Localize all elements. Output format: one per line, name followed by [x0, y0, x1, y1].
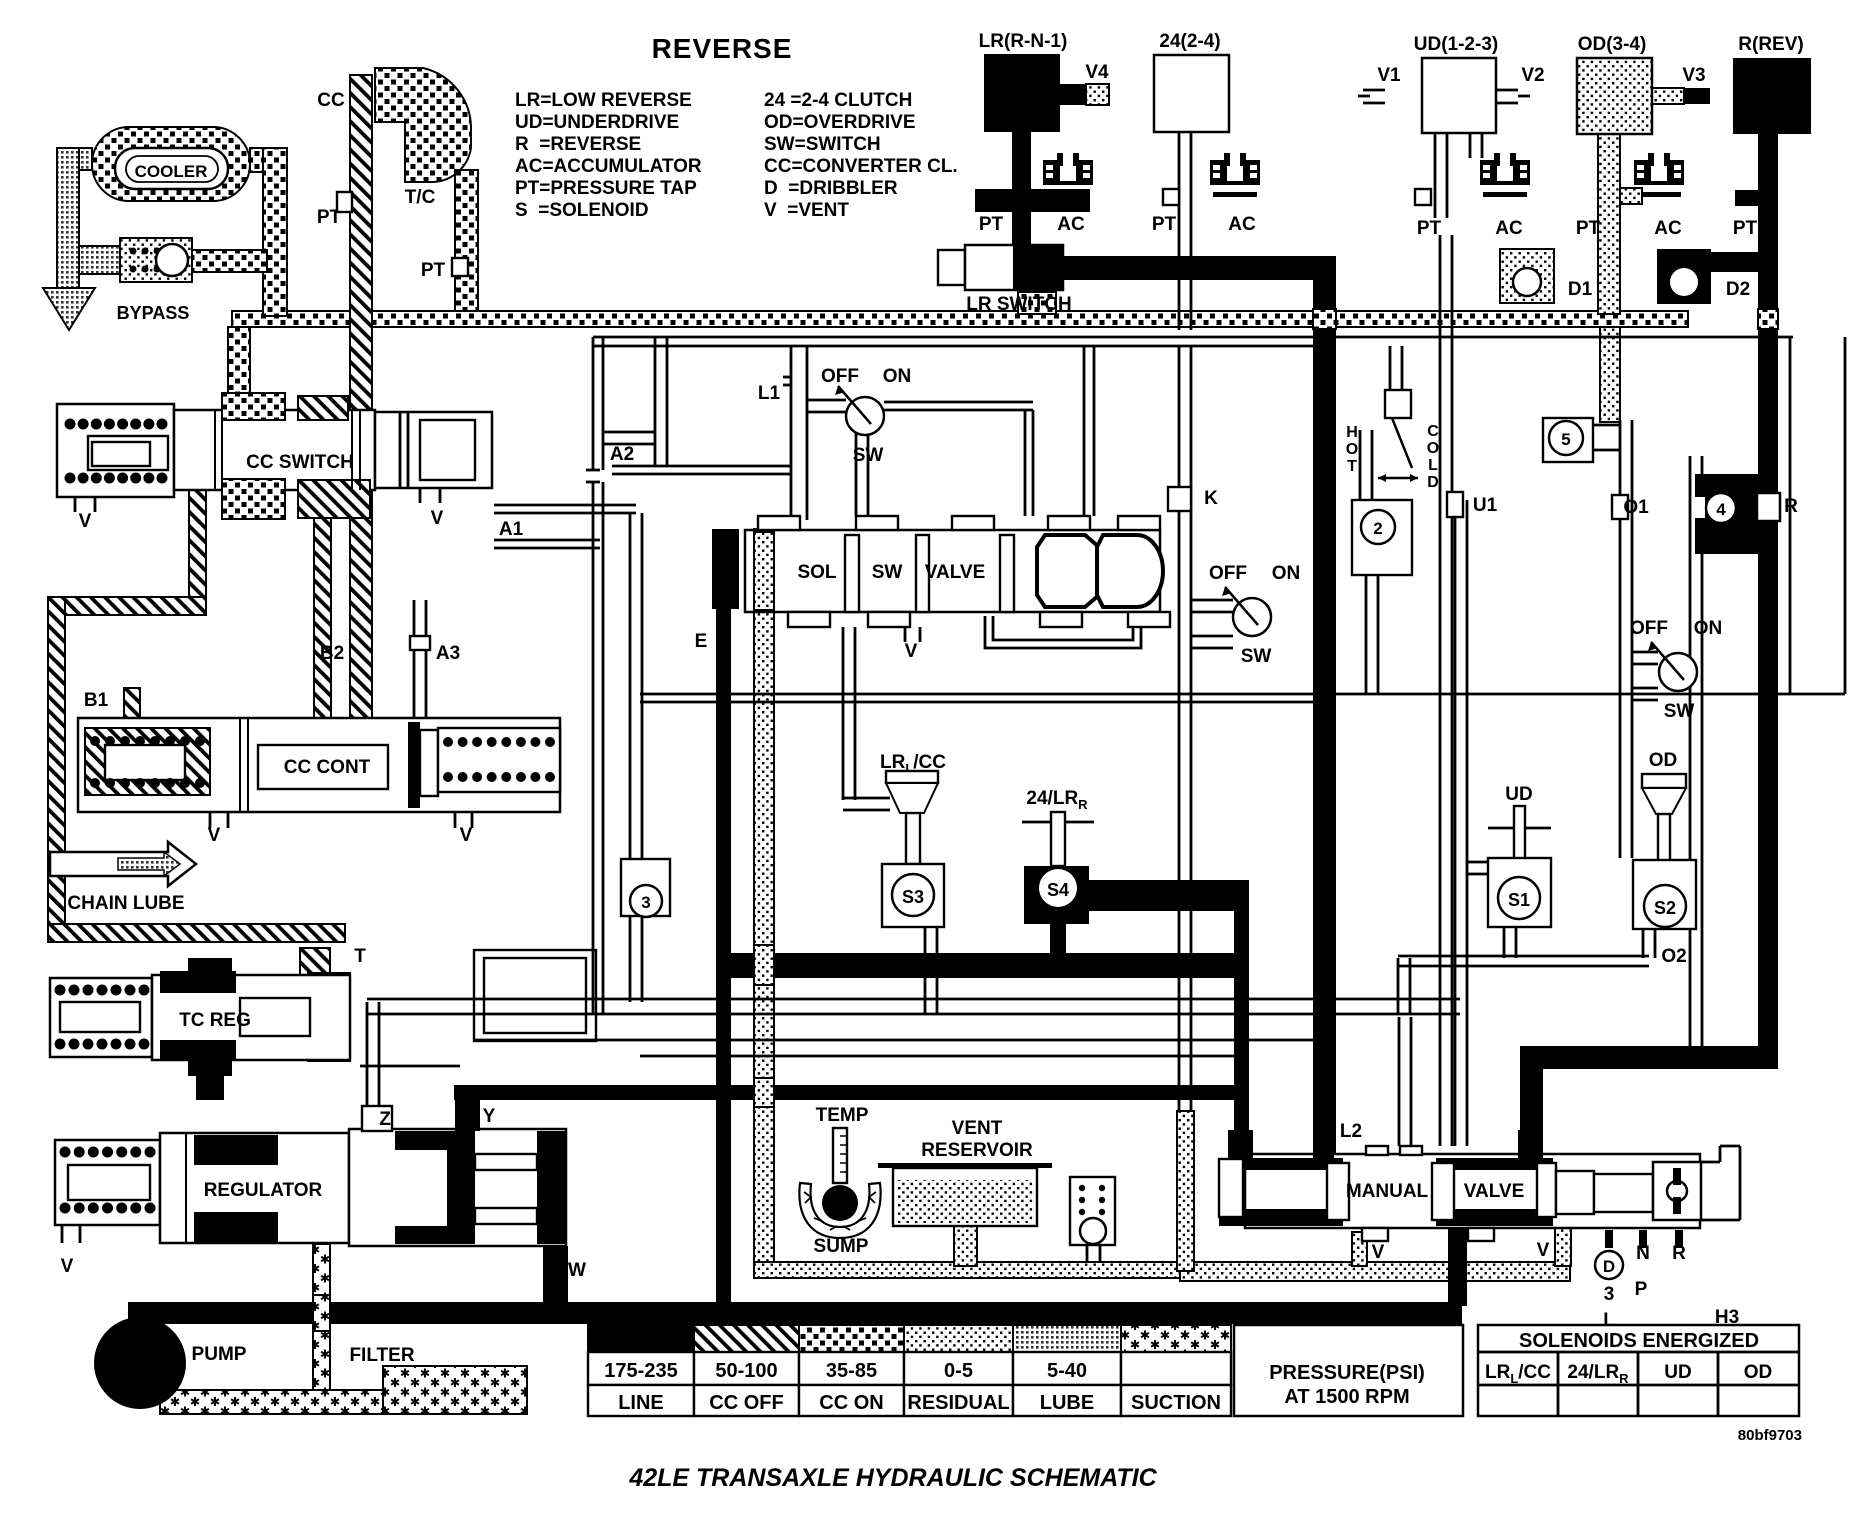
svg-text:CC OFF: CC OFF: [709, 1392, 783, 1414]
svg-text:K: K: [1204, 488, 1218, 509]
svg-text:42LE TRANSAXLE HYDRAULIC SCHEM: 42LE TRANSAXLE HYDRAULIC SCHEMATIC: [628, 1464, 1157, 1492]
svg-text:LR(R-N-1): LR(R-N-1): [979, 31, 1068, 52]
svg-text:UD=UNDERDRIVE: UD=UNDERDRIVE: [515, 112, 679, 133]
svg-text:S1: S1: [1508, 890, 1530, 910]
svg-text:RESIDUAL: RESIDUAL: [907, 1392, 1009, 1414]
svg-text:S4: S4: [1047, 880, 1069, 900]
svg-text:AC: AC: [1495, 218, 1523, 239]
svg-text:REVERSE: REVERSE: [652, 33, 793, 64]
svg-text:AC: AC: [1228, 214, 1256, 235]
svg-text:LR=LOW REVERSE: LR=LOW REVERSE: [515, 90, 692, 111]
svg-text:5: 5: [1561, 430, 1570, 449]
svg-text:UD: UD: [1505, 784, 1532, 805]
svg-text:R: R: [1784, 496, 1798, 517]
svg-text:PT: PT: [421, 260, 446, 281]
svg-text:S2: S2: [1654, 898, 1676, 918]
svg-text:OFF: OFF: [1209, 563, 1247, 584]
svg-text:VALVE: VALVE: [1464, 1181, 1525, 1202]
svg-text:PT: PT: [1576, 218, 1601, 239]
svg-text:V: V: [61, 1256, 74, 1277]
svg-text:PT=PRESSURE TAP: PT=PRESSURE TAP: [515, 178, 697, 199]
svg-text:80bf9703: 80bf9703: [1738, 1427, 1802, 1444]
svg-text:175-235: 175-235: [604, 1360, 677, 1382]
svg-text:Z: Z: [379, 1109, 391, 1130]
svg-text:SOL: SOL: [797, 562, 836, 583]
svg-text:CC: CC: [317, 90, 345, 111]
svg-text:CC=CONVERTER CL.: CC=CONVERTER CL.: [764, 156, 958, 177]
svg-text:CC ON: CC ON: [819, 1392, 883, 1414]
svg-text:R: R: [1672, 1243, 1686, 1264]
svg-text:W: W: [568, 1260, 586, 1281]
svg-text:LUBE: LUBE: [1040, 1392, 1094, 1414]
svg-text:SOLENOIDS ENERGIZED: SOLENOIDS ENERGIZED: [1519, 1330, 1759, 1352]
svg-text:H: H: [1346, 424, 1358, 441]
svg-text:N: N: [1636, 1243, 1650, 1264]
svg-text:S3: S3: [902, 887, 924, 907]
svg-text:D2: D2: [1726, 279, 1750, 300]
svg-text:50-100: 50-100: [715, 1360, 777, 1382]
svg-text:SW=SWITCH: SW=SWITCH: [764, 134, 881, 155]
svg-text:V1: V1: [1377, 65, 1401, 86]
svg-text:LINE: LINE: [618, 1392, 664, 1414]
svg-text:35-85: 35-85: [826, 1360, 877, 1382]
svg-text:V: V: [208, 825, 221, 846]
svg-text:4: 4: [1716, 500, 1726, 519]
svg-text:24 =2-4 CLUTCH: 24 =2-4 CLUTCH: [764, 90, 912, 111]
svg-text:V: V: [1537, 1240, 1550, 1261]
svg-text:PT: PT: [1733, 218, 1758, 239]
svg-text:R =REVERSE: R =REVERSE: [515, 134, 641, 155]
svg-text:A1: A1: [499, 519, 524, 540]
svg-text:ON: ON: [883, 366, 912, 387]
svg-text:RESERVOIR: RESERVOIR: [921, 1140, 1033, 1161]
svg-text:D1: D1: [1568, 279, 1593, 300]
svg-text:S =SOLENOID: S =SOLENOID: [515, 200, 649, 221]
svg-text:ON: ON: [1272, 563, 1301, 584]
svg-text:AC=ACCUMULATOR: AC=ACCUMULATOR: [515, 156, 702, 177]
svg-text:3: 3: [641, 893, 650, 912]
svg-text:AC: AC: [1057, 214, 1085, 235]
svg-text:OD=OVERDRIVE: OD=OVERDRIVE: [764, 112, 916, 133]
svg-text:CC SWITCH: CC SWITCH: [246, 452, 354, 473]
svg-text:SW: SW: [1664, 701, 1695, 722]
svg-text:PT: PT: [1152, 214, 1177, 235]
svg-text:OD: OD: [1744, 1362, 1773, 1383]
svg-text:UD: UD: [1664, 1362, 1691, 1383]
svg-text:PT: PT: [1417, 218, 1442, 239]
svg-text:V: V: [431, 508, 444, 529]
svg-text:PT: PT: [979, 214, 1004, 235]
svg-text:V: V: [79, 511, 92, 532]
svg-text:PRESSURE(PSI): PRESSURE(PSI): [1269, 1362, 1425, 1384]
svg-text:UD(1-2-3): UD(1-2-3): [1414, 34, 1498, 55]
svg-text:B2: B2: [320, 643, 344, 664]
svg-text:U1: U1: [1473, 495, 1498, 516]
svg-text:O1: O1: [1623, 497, 1649, 518]
svg-text:D =DRIBBLER: D =DRIBBLER: [764, 178, 898, 199]
svg-text:P: P: [1635, 1279, 1648, 1300]
svg-text:L: L: [1428, 457, 1438, 474]
svg-text:OD(3-4): OD(3-4): [1578, 34, 1647, 55]
svg-text:SW: SW: [872, 562, 903, 583]
svg-text:L2: L2: [1340, 1121, 1362, 1142]
svg-text:BYPASS: BYPASS: [117, 303, 190, 323]
svg-text:D: D: [1427, 474, 1439, 491]
svg-text:OFF: OFF: [821, 366, 859, 387]
svg-text:SW: SW: [1241, 646, 1272, 667]
svg-text:C: C: [1427, 423, 1439, 440]
svg-text:0-5: 0-5: [944, 1360, 973, 1382]
svg-text:Y: Y: [483, 1106, 496, 1127]
svg-text:O2: O2: [1661, 946, 1686, 967]
svg-text:OFF: OFF: [1630, 618, 1668, 639]
svg-text:SW: SW: [853, 445, 884, 466]
svg-text:SUMP: SUMP: [814, 1236, 869, 1257]
svg-text:2: 2: [1373, 519, 1382, 538]
svg-text:CHAIN LUBE: CHAIN LUBE: [67, 893, 184, 914]
svg-text:REGULATOR: REGULATOR: [204, 1180, 323, 1201]
svg-text:L1: L1: [758, 383, 781, 404]
svg-text:AC: AC: [1654, 218, 1682, 239]
svg-text:5-40: 5-40: [1047, 1360, 1087, 1382]
svg-text:VENT: VENT: [952, 1118, 1003, 1139]
svg-text:O: O: [1427, 440, 1439, 457]
svg-text:V =VENT: V =VENT: [764, 200, 849, 221]
svg-text:V: V: [460, 825, 473, 846]
svg-text:LR SWITCH: LR SWITCH: [966, 294, 1072, 315]
svg-text:V: V: [1372, 1242, 1385, 1263]
svg-text:T/C: T/C: [405, 187, 436, 208]
svg-text:3: 3: [1604, 1284, 1615, 1305]
svg-text:E: E: [695, 631, 708, 652]
svg-text:OD: OD: [1649, 750, 1678, 771]
svg-text:V: V: [905, 641, 918, 662]
svg-text:LRL/CC: LRL/CC: [1485, 1362, 1551, 1386]
svg-text:AT 1500 RPM: AT 1500 RPM: [1284, 1386, 1409, 1408]
svg-text:T: T: [354, 946, 366, 967]
svg-text:B1: B1: [84, 690, 109, 711]
svg-text:D: D: [1603, 1257, 1615, 1276]
svg-text:TC REG: TC REG: [179, 1010, 251, 1031]
svg-text:MANUAL: MANUAL: [1346, 1181, 1429, 1202]
svg-text:TEMP: TEMP: [816, 1105, 869, 1126]
svg-text:FILTER: FILTER: [349, 1345, 414, 1366]
svg-text:24(2-4): 24(2-4): [1159, 31, 1220, 52]
svg-text:ON: ON: [1694, 618, 1723, 639]
svg-text:SUCTION: SUCTION: [1131, 1392, 1221, 1414]
svg-text:A2: A2: [610, 444, 634, 465]
svg-text:V4: V4: [1085, 62, 1109, 83]
svg-text:R(REV): R(REV): [1738, 34, 1803, 55]
svg-text:CC CONT: CC CONT: [284, 757, 371, 778]
svg-text:V3: V3: [1682, 65, 1705, 86]
svg-text:COOLER: COOLER: [135, 162, 208, 181]
svg-text:O: O: [1346, 441, 1358, 458]
svg-text:V2: V2: [1521, 65, 1544, 86]
svg-text:A3: A3: [436, 643, 460, 664]
svg-text:T: T: [1347, 458, 1357, 475]
svg-text:PUMP: PUMP: [192, 1344, 247, 1365]
svg-text:VALVE: VALVE: [925, 562, 986, 583]
